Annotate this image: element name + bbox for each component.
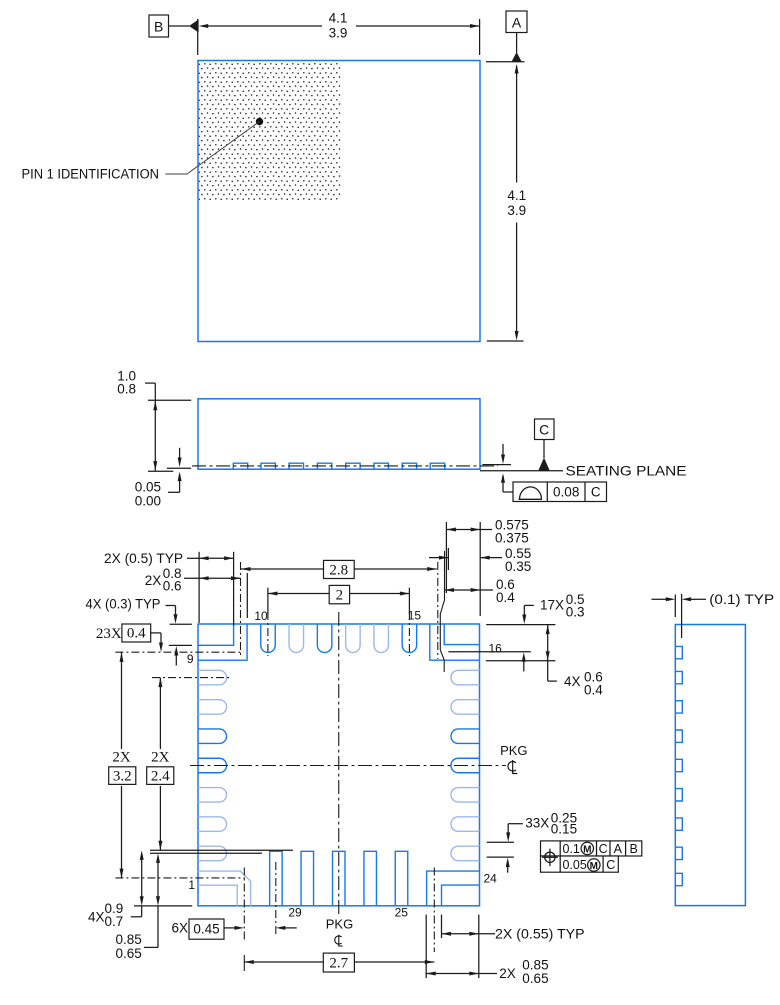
- svg-text:0.4: 0.4: [584, 683, 603, 698]
- side top extension line: [148, 399, 191, 401]
- pin 14 pad: [374, 624, 389, 653]
- pin 1 identification dot: [256, 118, 263, 125]
- svg-text:24: 24: [484, 872, 498, 886]
- side view lead 5: [346, 463, 360, 469]
- svg-text:2X: 2X: [112, 750, 131, 766]
- detail view lead 1: [675, 646, 682, 658]
- pin 15 pad: [402, 624, 417, 653]
- datum A filled triangle: [511, 52, 521, 62]
- detail view lead 5: [675, 759, 682, 771]
- side view lead plane dash-dot line: [192, 465, 498, 467]
- ext line corner pad outer: [246, 573, 248, 618]
- package bottom extension line: [167, 467, 191, 469]
- svg-text:2.4: 2.4: [151, 769, 170, 785]
- side height dim line: [154, 400, 156, 471]
- svg-text:10: 10: [254, 609, 268, 623]
- dim 2 line: [268, 593, 410, 595]
- pin 13 pad: [346, 624, 361, 653]
- svg-text:25: 25: [395, 906, 409, 920]
- standoff dim lower arrow: [179, 474, 181, 492]
- (0.3) bracket: [166, 605, 176, 607]
- dim 0.4 box: [122, 624, 151, 642]
- datum B filled triangle: [189, 20, 199, 33]
- dim 2.7 box: [323, 953, 354, 972]
- svg-text:0.45: 0.45: [193, 922, 219, 937]
- svg-text:3.9: 3.9: [329, 26, 348, 41]
- 4X bracket: [547, 661, 549, 681]
- svg-text:A: A: [512, 15, 522, 31]
- svg-text:B: B: [630, 842, 638, 856]
- ext line pkg top left: [170, 623, 192, 625]
- svg-text:0.15: 0.15: [551, 821, 577, 836]
- pin 1 row centerline: [115, 877, 245, 879]
- side view lead 1: [233, 463, 247, 469]
- svg-text:16: 16: [489, 641, 503, 655]
- 33X lower arrow: [506, 858, 510, 868]
- position tolerance frame: [541, 841, 642, 856]
- pin 17 pad: [451, 670, 480, 685]
- svg-text:2.7: 2.7: [329, 956, 348, 972]
- svg-text:B: B: [154, 19, 163, 35]
- svg-text:C: C: [539, 422, 549, 438]
- seating plane extension line left: [148, 470, 173, 472]
- svg-text:6X: 6X: [172, 921, 189, 936]
- flatness callout upper arrow: [502, 444, 504, 459]
- 1.0/0.8 text bracket: [145, 382, 155, 384]
- svg-text:2X: 2X: [151, 750, 170, 766]
- svg-text:2: 2: [336, 588, 344, 604]
- pin 5 pad: [198, 758, 227, 773]
- svg-text:PIN 1 IDENTIFICATION: PIN 1 IDENTIFICATION: [22, 167, 160, 182]
- flatness callout lower arrow: [501, 473, 505, 483]
- ext line jog: [440, 551, 444, 672]
- svg-text:3.2: 3.2: [113, 769, 132, 785]
- svg-text:29: 29: [288, 906, 302, 920]
- svg-text:M: M: [583, 844, 591, 855]
- pin 8 row centerline: [152, 677, 229, 679]
- pin 29 column centerline: [275, 862, 277, 935]
- svg-text:4X: 4X: [564, 674, 581, 689]
- datum A box: [506, 11, 527, 33]
- pin 20 pad: [451, 758, 480, 773]
- svg-text:2X (0.5) TYP: 2X (0.5) TYP: [104, 551, 183, 566]
- flatness feature control frame: [513, 482, 607, 502]
- svg-text:0.7: 0.7: [105, 914, 124, 929]
- ext line pad 23 bottom: [487, 856, 514, 858]
- dim 0.55/0.35 left: [429, 557, 448, 559]
- package vertical centerline: [338, 612, 340, 914]
- svg-text:2.8: 2.8: [329, 563, 348, 579]
- svg-text:PKG: PKG: [326, 916, 353, 931]
- package horizontal centerline: [190, 765, 506, 767]
- svg-text:3.9: 3.9: [507, 203, 526, 218]
- pin 1 leader line: [166, 122, 260, 175]
- svg-text:0.00: 0.00: [135, 494, 161, 509]
- dim (0.5) line: [199, 557, 234, 559]
- svg-text:C: C: [606, 858, 615, 872]
- pin 19 pad: [451, 729, 480, 744]
- detail view lead 9: [675, 873, 682, 885]
- (0.1) ext line 1: [674, 595, 676, 618]
- detail view lead 2: [675, 671, 682, 683]
- svg-text:4.1: 4.1: [329, 11, 348, 26]
- side view package body: [198, 399, 480, 469]
- pin 10 pad: [261, 624, 276, 653]
- svg-text:0.85: 0.85: [116, 932, 142, 947]
- dim 3.2 box: [109, 767, 136, 785]
- datum C filled triangle: [538, 458, 549, 471]
- dim 2.8 line: [241, 568, 437, 570]
- (0.3) lower arrow: [174, 646, 178, 656]
- ext line pad top right: [486, 624, 555, 626]
- pin 18 pad: [451, 700, 480, 715]
- dim 2X 3.2 line: [121, 652, 123, 749]
- centerline symbol right: [508, 760, 517, 774]
- (0.1) ext line 2: [681, 594, 683, 638]
- ext line pin 15 center: [408, 588, 410, 614]
- flatness symbol: [519, 487, 542, 499]
- 17X bracket: [524, 604, 534, 606]
- pin 8 pad: [198, 670, 227, 685]
- svg-text:4X (0.3) TYP: 4X (0.3) TYP: [86, 597, 161, 612]
- svg-text:0.6: 0.6: [163, 579, 182, 594]
- ext line V1: [445, 522, 447, 593]
- pin 9 row centerline: [115, 651, 243, 653]
- ext line V3: [447, 548, 449, 570]
- ext line pin 10 center: [267, 588, 269, 614]
- dim 0.8/0.6 line: [184, 577, 241, 579]
- detail view lead 7: [675, 818, 682, 830]
- 6X leader arrow: [224, 927, 236, 929]
- dimension line 4.1/3.9 horizontal: [208, 25, 322, 27]
- 6X opposing arrow: [276, 926, 286, 930]
- dim 2X 0.85/0.65: [426, 973, 497, 975]
- side view lead 3: [289, 463, 303, 469]
- detail view lead 6: [675, 789, 682, 801]
- dim (0.5) leader: [187, 557, 199, 559]
- svg-text:PKG: PKG: [500, 743, 527, 758]
- seating plane line: [480, 470, 563, 472]
- pin 22 pad: [451, 817, 480, 832]
- right dim bottom extension line: [487, 340, 524, 342]
- dim 4X 0.9/0.7: [141, 855, 143, 901]
- dim 4X 0.6/0.4 line: [547, 625, 549, 661]
- pin 15 centerline: [408, 612, 410, 656]
- pin 24 corner pad: [427, 871, 480, 906]
- svg-text:1: 1: [188, 878, 195, 892]
- ext line V2 pkg right: [479, 522, 481, 616]
- pin 11 pad: [289, 624, 304, 653]
- top dim left extension line: [197, 19, 199, 55]
- ext line corner pad bottom right: [486, 660, 556, 662]
- pin 29 pad: [270, 851, 283, 906]
- svg-text:M: M: [590, 861, 598, 872]
- pin 6 pad: [198, 729, 227, 744]
- dim 0.85/0.65 left: [157, 858, 159, 901]
- svg-text:0.65: 0.65: [522, 971, 548, 986]
- (0.1) left arrow: [652, 598, 667, 600]
- top-right corner pad centerline: [437, 562, 439, 659]
- datum A extension line: [486, 61, 525, 63]
- flatness callout connector: [503, 491, 513, 493]
- dim 2X (0.55) TYP: [442, 933, 496, 935]
- ext line corner pad inner: [233, 552, 235, 626]
- pin 28 pad: [301, 851, 314, 906]
- dim 2.8 box: [324, 560, 355, 578]
- detail view lead 8: [675, 847, 682, 859]
- pin 9 corner pad: [198, 624, 247, 660]
- side view lead 8: [430, 463, 444, 469]
- pin 25 pad: [395, 851, 408, 906]
- standoff dim upper arrow: [179, 448, 181, 459]
- side view lead 7: [402, 463, 416, 469]
- right dim line 4.1/3.9 vertical: [516, 66, 518, 183]
- detail view lead 3: [675, 701, 682, 713]
- 33X bracket: [508, 823, 523, 825]
- dim 2.4 box: [147, 767, 174, 785]
- svg-text:4.1: 4.1: [507, 188, 526, 203]
- 23X leader: [151, 632, 161, 634]
- datum A leader: [516, 33, 518, 53]
- top dim right extension line: [479, 19, 481, 55]
- svg-text:C: C: [599, 842, 608, 856]
- side view lead 6: [374, 463, 388, 469]
- pin 24 column centerline: [433, 868, 435, 953]
- pin 10 centerline: [267, 612, 269, 656]
- pin 1 corner pad: [198, 871, 251, 906]
- svg-text:0.35: 0.35: [505, 559, 531, 574]
- 17X lower arrow: [522, 652, 526, 662]
- svg-text:0.05: 0.05: [135, 480, 161, 495]
- datum C leader: [543, 440, 545, 459]
- ext line pin24 inner below: [441, 915, 443, 938]
- side view lead 2: [261, 463, 275, 469]
- svg-text:4X: 4X: [88, 910, 105, 925]
- flatness lead bottom extension: [482, 464, 511, 466]
- pin 21 pad: [451, 788, 480, 803]
- datum B box: [149, 15, 169, 37]
- svg-text:(0.1) TYP: (0.1) TYP: [709, 592, 774, 607]
- pin 1 column centerline: [243, 868, 245, 942]
- svg-text:0.3: 0.3: [566, 605, 585, 620]
- svg-text:9: 9: [187, 652, 194, 666]
- ext line package bottom left: [134, 905, 192, 907]
- ext line bottom pad top level: [150, 849, 293, 851]
- svg-text:0.4: 0.4: [496, 590, 515, 605]
- dim 2.7 line: [244, 961, 434, 963]
- svg-text:17X: 17X: [540, 598, 564, 613]
- svg-text:23X: 23X: [96, 626, 122, 642]
- datum B leader: [169, 25, 190, 27]
- standoff text bracket: [168, 491, 180, 493]
- datum C box: [535, 419, 555, 440]
- pin 23 pad: [451, 846, 480, 861]
- top view package body outline: [198, 61, 480, 342]
- pin 2 pad: [198, 846, 227, 861]
- ext line pad bottom right: [448, 651, 530, 653]
- svg-text:0.1: 0.1: [563, 842, 580, 856]
- dim 0.45 box: [189, 919, 224, 939]
- svg-text:0.8: 0.8: [117, 382, 136, 397]
- side view lead 4: [317, 463, 331, 469]
- dim 2X 2.4 line: [159, 678, 161, 749]
- (0.1) right arrow: [682, 597, 692, 601]
- pin 27 pad: [333, 851, 346, 906]
- detail view lead 4: [675, 730, 682, 742]
- top view pin-1 stipple hatch region: [199, 61, 341, 201]
- ext line pad bottom left: [169, 644, 192, 646]
- svg-text:SEATING PLANE: SEATING PLANE: [566, 464, 687, 479]
- dim 2 box: [329, 585, 349, 603]
- bottom view package outline: [198, 624, 480, 906]
- svg-text:C: C: [591, 485, 601, 500]
- pin 7 pad: [198, 700, 227, 715]
- dim 0.575/0.375 line: [446, 529, 492, 531]
- svg-text:33X: 33X: [525, 815, 549, 830]
- svg-text:0.08: 0.08: [553, 485, 579, 500]
- svg-text:0.4: 0.4: [127, 626, 146, 642]
- ext line 0.85 level: [150, 852, 262, 854]
- svg-text:0.05: 0.05: [563, 858, 587, 872]
- svg-text:2X: 2X: [499, 966, 516, 981]
- svg-text:2X: 2X: [145, 573, 162, 588]
- ext line pad 23 top: [487, 841, 514, 843]
- svg-text:0.375: 0.375: [495, 531, 529, 546]
- ext line pkg right below: [478, 915, 480, 979]
- svg-text:0.65: 0.65: [116, 946, 142, 961]
- ext line pkg left edge: [198, 552, 200, 623]
- pin 16 corner pad: [430, 624, 480, 660]
- ext line pin24 outer below: [425, 915, 427, 979]
- position symbol: [542, 849, 558, 867]
- pin 12 pad: [317, 624, 332, 653]
- dim 0.55/0.35 right: [480, 557, 502, 559]
- svg-text:2X (0.55) TYP: 2X (0.55) TYP: [495, 926, 585, 941]
- centerline symbol bottom: [335, 935, 343, 946]
- pin 3 pad: [198, 817, 227, 832]
- pin 26 pad: [364, 851, 377, 906]
- dim 0.6/0.4 line: [445, 589, 494, 591]
- detail view body outline: [675, 625, 745, 906]
- svg-text:A: A: [614, 842, 623, 856]
- pin 4 pad: [198, 788, 227, 803]
- top-left corner pad centerline: [240, 562, 242, 656]
